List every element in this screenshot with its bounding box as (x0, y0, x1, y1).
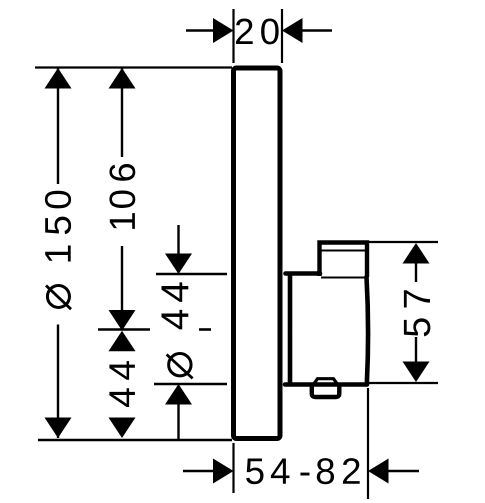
bottom extension line (plate bottom) (38, 439, 232, 441)
button inner line (320, 250, 366, 252)
handle centre tick (98, 328, 150, 331)
dimension 54-82 right arrow (368, 459, 389, 484)
dimension 57 top extension line (365, 241, 438, 243)
dimension 44 (lower) label (109, 361, 135, 407)
dimension 20 left extension line (232, 9, 234, 63)
dimension 150 bottom arrow (45, 418, 72, 439)
dimension 54-82 right extension line (367, 388, 369, 499)
button joint line (321, 277, 365, 279)
dimension 54-82 label (246, 458, 360, 484)
dimension 44 (lower) top arrow (109, 331, 136, 352)
dimension 20 left arrow (213, 18, 234, 43)
handle body (285, 274, 368, 385)
bottom tab (312, 385, 340, 398)
dimension 20 right arrow (282, 18, 303, 43)
dimension 106 bottom arrow (109, 310, 136, 331)
dimension 44 (lower) bottom arrow (109, 418, 136, 439)
dimension diameter 44 label (162, 282, 189, 329)
dimension 57 label (404, 290, 431, 336)
dimension 150 line (57, 68, 59, 184)
dimension 106 label (109, 164, 135, 229)
dimension 57 bottom extension line (367, 382, 438, 384)
bottom tab top arc (313, 379, 338, 385)
dimension diameter 150 label (45, 191, 71, 262)
dimension 54-82 left extension line (232, 443, 234, 493)
dimension 57 line (415, 262, 417, 282)
dimension diameter 44 upper line and arrow (177, 225, 179, 255)
plate (escutcheon side view) (234, 68, 281, 439)
dimension 57 top arrow (403, 243, 430, 264)
dimension diameter 44 lower line and arrow (165, 384, 192, 405)
dimension 20 right extension line (281, 9, 283, 63)
dimension 106 line (121, 68, 123, 157)
dimension 57 bottom arrow (403, 362, 430, 383)
dimension 150 top arrow (45, 68, 72, 89)
top extension line (plate top) (35, 66, 232, 68)
handle button (320, 243, 368, 278)
dimension diameter 44 upper tick (156, 273, 227, 276)
dimension 54-82 left arrow (183, 470, 214, 472)
dimension diameter 44 lower tick (154, 383, 227, 386)
dimension 106 top arrow (109, 68, 136, 89)
dimension 20 label (236, 19, 279, 45)
